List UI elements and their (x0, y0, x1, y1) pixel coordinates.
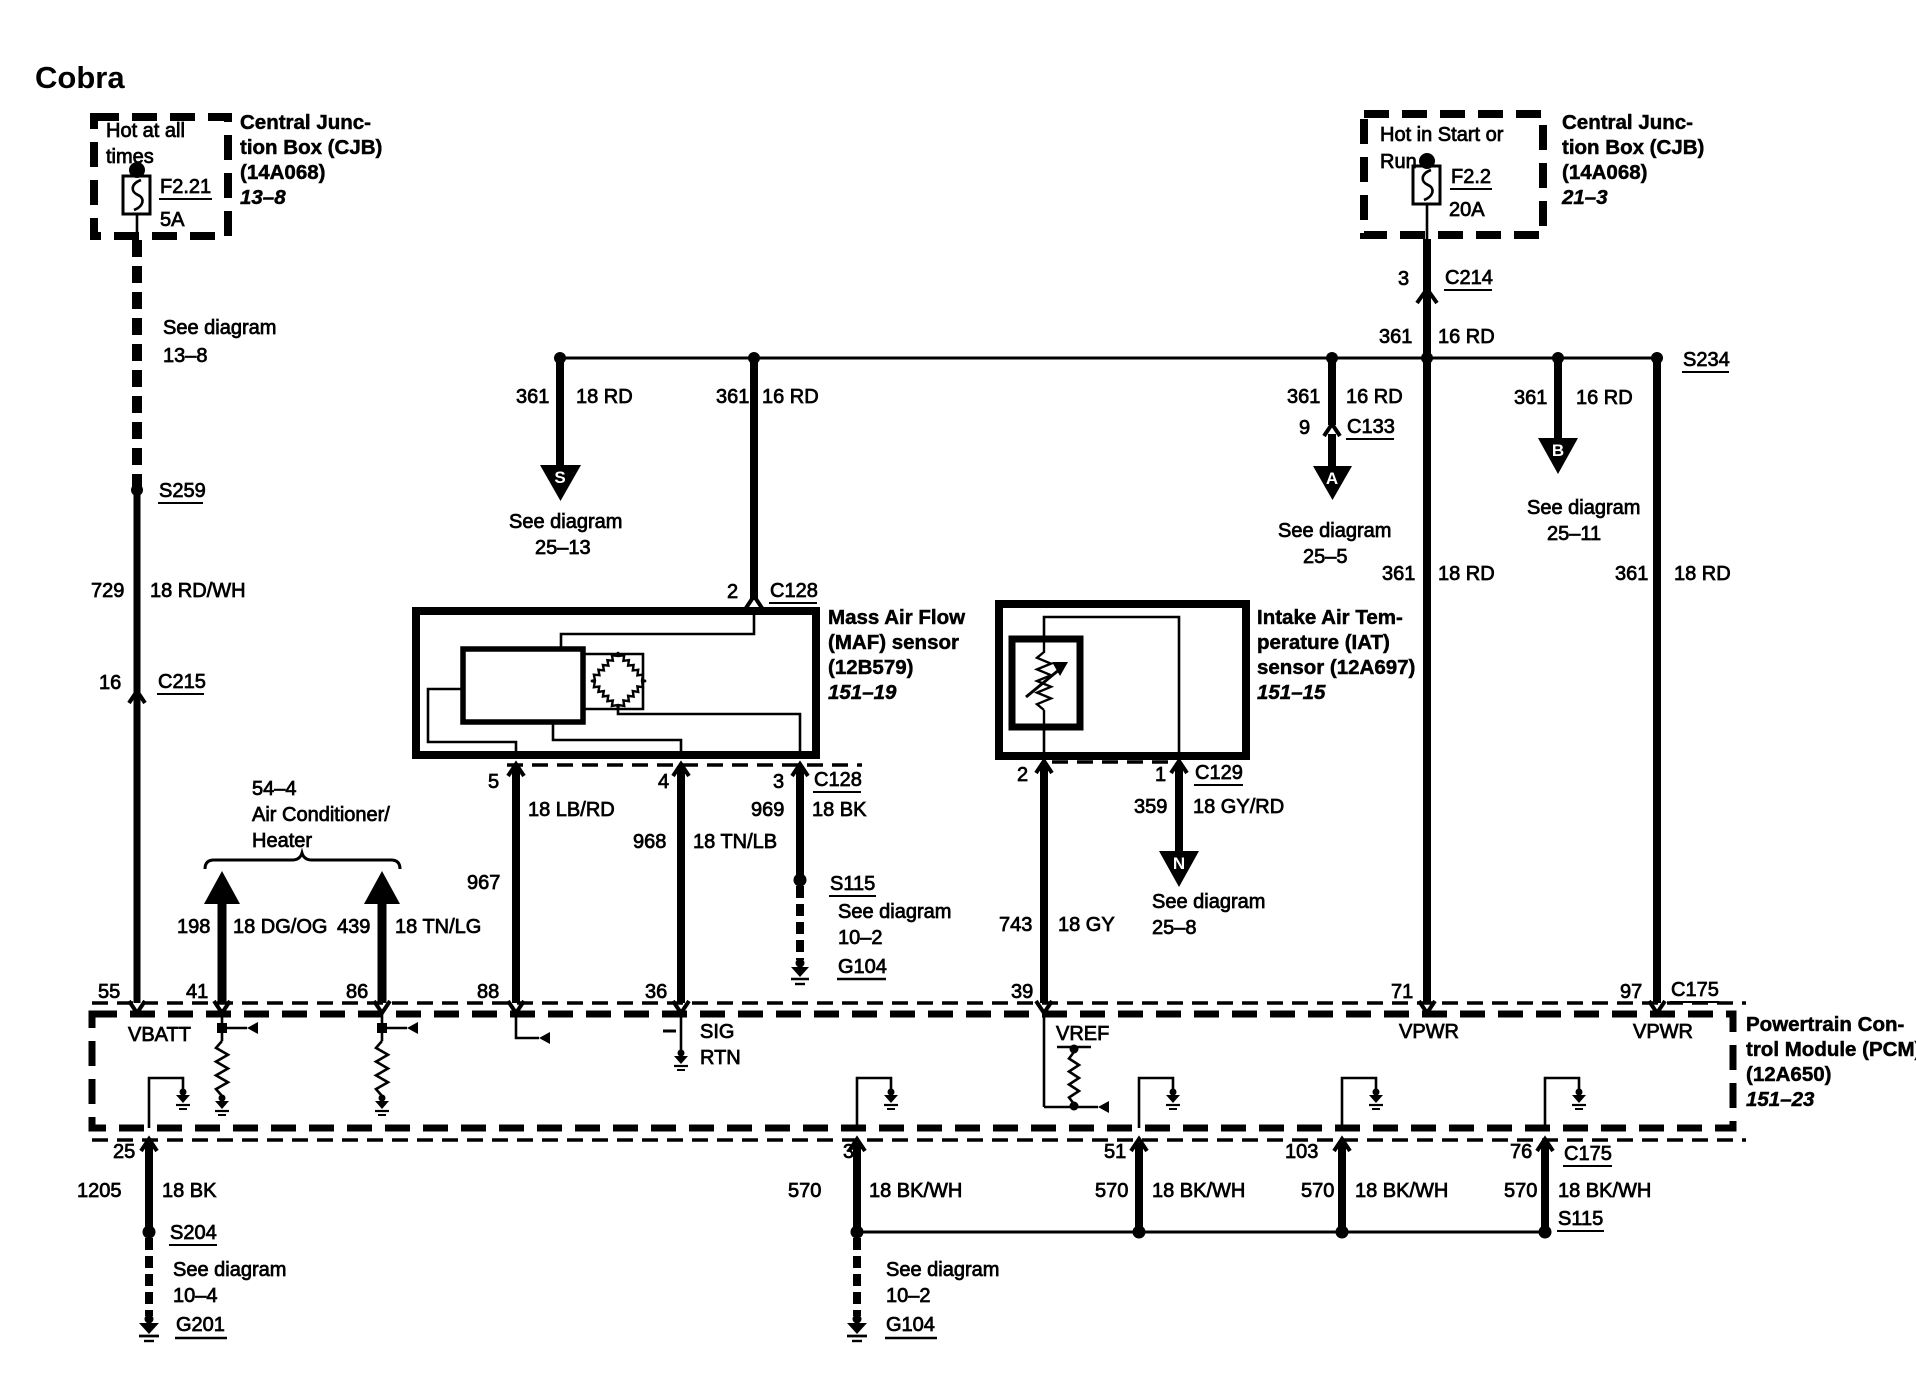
connector C128 pin labels 5 4 3 (488, 769, 862, 793)
svg-text:18 BK/WH: 18 BK/WH (1558, 1180, 1651, 1202)
svg-text:969: 969 (751, 799, 784, 821)
svg-text:See diagram: See diagram (1278, 520, 1391, 542)
label Mass Air Flow (MAF) sensor (12B579) 151-19 (828, 606, 965, 704)
wire from CJB2 to C214 (1423, 239, 1431, 358)
svg-text:C175: C175 (1564, 1143, 1612, 1165)
svg-text:97: 97 (1620, 981, 1642, 1003)
label 361 18 RD (pin71 feed) (1382, 563, 1495, 585)
svg-text:151–19: 151–19 (828, 681, 897, 704)
label See diagram 13-8 (163, 317, 276, 367)
svg-text:151–23: 151–23 (1746, 1088, 1815, 1111)
CJB box 2 (Hot in Start or Run, dashed) (1364, 114, 1543, 235)
svg-text:18 BK: 18 BK (812, 799, 867, 821)
ground G201 (139, 1315, 159, 1342)
label Hot at all times (106, 120, 185, 168)
wire 743 18 GY (1040, 763, 1048, 1003)
svg-text:S259: S259 (159, 480, 206, 502)
connector chevrons C128 pins (508, 764, 808, 776)
PCM internal ground circuit pin 103 (1342, 1078, 1383, 1128)
label 743 18 GY (999, 914, 1115, 936)
svg-text:729: 729 (91, 580, 124, 602)
svg-text:tion Box (CJB): tion Box (CJB) (240, 136, 382, 159)
svg-text:361: 361 (1287, 386, 1320, 408)
splice S115 top (794, 873, 877, 896)
connector C175 top label (1670, 979, 1719, 1002)
svg-text:21–3: 21–3 (1561, 186, 1608, 209)
label 1205 18 BK (77, 1180, 217, 1202)
arrow N (see diagram 25-8) (1159, 851, 1199, 887)
svg-text:18 RD: 18 RD (576, 386, 633, 408)
svg-text:570: 570 (788, 1180, 821, 1202)
svg-text:S204: S204 (170, 1222, 217, 1244)
MAF bridge diamond (591, 652, 646, 709)
svg-text:18 BK/WH: 18 BK/WH (869, 1180, 962, 1202)
thermistor element (1026, 639, 1068, 727)
svg-text:C215: C215 (158, 671, 206, 693)
label 969 18 BK (751, 799, 867, 821)
label 570 18 BK/WH (pin3) (788, 1180, 962, 1202)
svg-text:968: 968 (633, 831, 666, 853)
svg-text:VBATT: VBATT (128, 1024, 191, 1046)
label Central Junction Box (CJB) (14A068) 13-8 left (240, 111, 382, 209)
svg-text:1205: 1205 (77, 1180, 122, 1202)
svg-text:570: 570 (1504, 1180, 1537, 1202)
connector C129 dashed line (1052, 760, 1170, 763)
svg-text:10–4: 10–4 (173, 1285, 218, 1307)
label See diagram 25-13 (509, 511, 622, 559)
svg-text:16 RD: 16 RD (762, 386, 819, 408)
splice S204 (143, 1222, 218, 1245)
connector C128 pin 2 (727, 580, 818, 608)
wire drop to arrow B (1554, 358, 1562, 440)
svg-text:25–5: 25–5 (1303, 546, 1348, 568)
MAF sensor box (416, 611, 816, 755)
wire dashed pin3 to G104 (853, 1238, 861, 1316)
connector chevrons C129 pins (1036, 761, 1187, 773)
connector C175 dashed line bottom (92, 1138, 1746, 1141)
svg-text:B: B (1552, 441, 1564, 460)
wire MAF pin2 to module (561, 611, 754, 649)
svg-text:Intake Air Tem-: Intake Air Tem- (1257, 606, 1403, 629)
svg-text:perature (IAT): perature (IAT) (1257, 631, 1390, 654)
svg-text:3: 3 (1398, 268, 1409, 290)
fuse F2.21 5A (123, 162, 150, 240)
svg-text:18 GY: 18 GY (1058, 914, 1115, 936)
wire dashed S204 to G201 (145, 1238, 153, 1316)
svg-text:sensor (12A697): sensor (12A697) (1257, 656, 1415, 679)
svg-text:361: 361 (1615, 563, 1648, 585)
svg-text:G104: G104 (838, 956, 887, 978)
connector chevrons PCM top pins (129, 1001, 1665, 1013)
wire 968 18 TN/LB (677, 766, 685, 1003)
label 361 16 RD top right (1379, 326, 1495, 348)
svg-text:16: 16 (99, 672, 121, 694)
wire 359 18 GY/RD (1175, 763, 1183, 853)
IAT thermistor box (1012, 639, 1080, 727)
svg-text:25–11: 25–11 (1547, 523, 1601, 545)
wire 729 18 RD/WH (134, 490, 141, 1003)
wire 570 18 BK/WH pin 103 (1336, 1143, 1349, 1239)
svg-text:51: 51 (1104, 1141, 1126, 1163)
connector C128 dashed line bottom (507, 763, 862, 766)
svg-text:88: 88 (477, 981, 499, 1003)
label See diagram 25-5 (1278, 520, 1391, 568)
svg-text:Run: Run (1380, 151, 1417, 173)
wire drop to arrow A (1328, 358, 1336, 425)
svg-text:18 DG/OG: 18 DG/OG (233, 916, 327, 938)
svg-text:359: 359 (1134, 796, 1167, 818)
wire 1205 18 BK pin 25 (145, 1143, 153, 1228)
svg-text:Air Conditioner/: Air Conditioner/ (252, 804, 390, 826)
svg-text:10–2: 10–2 (838, 927, 883, 949)
svg-text:18 TN/LB: 18 TN/LB (693, 831, 777, 853)
wire drop to arrow S (556, 358, 564, 467)
wire dashed feed from CJB1 (132, 240, 142, 487)
PCM internal pin 88: stub arrow (516, 1013, 550, 1044)
wire 969 18 BK (796, 766, 804, 877)
wire MAF bridge to pin 3 (618, 709, 800, 755)
svg-text:86: 86 (346, 981, 368, 1003)
svg-text:18 RD: 18 RD (1674, 563, 1731, 585)
svg-text:16 RD: 16 RD (1438, 326, 1495, 348)
wire S234 feed to pin 97 (1653, 358, 1661, 1003)
label 54-4 Air Conditioner/Heater (252, 778, 390, 852)
ground G104 (upper) (791, 959, 809, 985)
brace Air Conditioner/Heater (205, 853, 400, 869)
PCM internal ground circuit pin 3 (857, 1078, 898, 1128)
svg-text:39: 39 (1011, 981, 1033, 1003)
connector C129 pin labels (1017, 762, 1243, 786)
svg-text:4: 4 (658, 771, 669, 793)
label See diagram 10-2 G104 (lower) (885, 1259, 999, 1338)
PCM internal pin 41: junction, stub arrow, resistor, ground (215, 1013, 258, 1115)
wire 570 18 BK/WH pin 3 (853, 1143, 861, 1228)
MAF inner module rect (463, 649, 583, 722)
svg-text:See diagram: See diagram (163, 317, 276, 339)
PCM internal pin 39: VREF resistor and stub arrow (1044, 1013, 1109, 1113)
svg-text:C133: C133 (1347, 416, 1395, 438)
pin labels PCM bottom row (113, 1141, 1532, 1163)
svg-text:18 BK/WH: 18 BK/WH (1355, 1180, 1448, 1202)
svg-text:VPWR: VPWR (1399, 1021, 1459, 1043)
svg-text:S: S (554, 468, 565, 487)
label See diagram 25-8 (1152, 891, 1265, 939)
svg-text:C214: C214 (1445, 267, 1493, 289)
wire IAT thermistor to pin 2 (1043, 727, 1046, 752)
svg-text:Powertrain Con-: Powertrain Con- (1746, 1013, 1904, 1036)
svg-text:S115: S115 (830, 873, 875, 895)
svg-text:71: 71 (1391, 981, 1413, 1003)
svg-text:18 LB/RD: 18 LB/RD (528, 799, 615, 821)
wire VPWR feed to pin 71 (1423, 358, 1431, 1003)
svg-text:13–8: 13–8 (240, 186, 286, 209)
svg-text:trol Module (PCM): trol Module (PCM) (1746, 1038, 1916, 1061)
svg-text:570: 570 (1095, 1180, 1128, 1202)
svg-text:2: 2 (1017, 764, 1028, 786)
svg-text:2: 2 (727, 581, 738, 603)
wire C133 to arrow A (1328, 434, 1336, 468)
wire dashed S115 to G104 (796, 886, 804, 960)
label 361 16 RD (MAF drop) (716, 386, 819, 408)
svg-text:(14A068): (14A068) (1562, 161, 1647, 184)
svg-text:tion Box (CJB): tion Box (CJB) (1562, 136, 1704, 159)
pin labels PCM top row (98, 981, 1642, 1003)
PCM box dashed (Powertrain Control Module) (92, 1014, 1733, 1128)
svg-text:13–8: 13–8 (163, 345, 208, 367)
label 361 18 RD (S drop) (516, 386, 633, 408)
svg-text:F2.21: F2.21 (160, 176, 211, 198)
svg-text:(12A650): (12A650) (1746, 1063, 1831, 1086)
wire 570 18 BK/WH pin 76 (1539, 1143, 1552, 1239)
label Hot in Start or Run (1380, 124, 1504, 173)
svg-text:C129: C129 (1195, 762, 1243, 784)
wire 570 18 BK/WH pin 51 (1133, 1143, 1146, 1239)
svg-text:SIG: SIG (700, 1021, 734, 1043)
svg-text:Central Junc-: Central Junc- (1562, 111, 1693, 134)
fuse F2.2 value label (1449, 166, 1492, 221)
svg-text:Cobra: Cobra (35, 60, 125, 95)
svg-text:18 BK/WH: 18 BK/WH (1152, 1180, 1245, 1202)
svg-text:C128: C128 (814, 769, 862, 791)
connector C175 dashed line top (92, 1001, 1746, 1004)
arrow up wire 198 (204, 871, 240, 1003)
label Powertrain Control Module (PCM) (12A650) 151-23 (1746, 1013, 1916, 1111)
svg-text:570: 570 (1301, 1180, 1334, 1202)
fuse F2.2 20A (1413, 153, 1440, 239)
svg-text:18 RD: 18 RD (1438, 563, 1495, 585)
svg-text:361: 361 (516, 386, 549, 408)
label SIG RTN with minus (663, 1021, 741, 1069)
PCM internal ground circuit pin 76 (1545, 1078, 1586, 1128)
PCM internal ground circuit pin 25 (149, 1078, 190, 1128)
svg-text:55: 55 (98, 981, 120, 1003)
svg-text:16 RD: 16 RD (1346, 386, 1403, 408)
label See diagram 25-11 (1527, 497, 1640, 545)
svg-text:5A: 5A (160, 209, 185, 231)
svg-text:VPWR: VPWR (1633, 1021, 1693, 1043)
svg-text:See diagram: See diagram (509, 511, 622, 533)
connector C175 bottom label (1563, 1143, 1612, 1166)
label 359 18 GY/RD (1134, 796, 1284, 818)
connector chevrons PCM bottom pins (141, 1139, 1553, 1151)
svg-text:18 BK: 18 BK (162, 1180, 217, 1202)
arrow S (see diagram 25-13) (540, 465, 581, 501)
connector C214 pin 3 (1398, 267, 1493, 303)
svg-text:Hot in Start or: Hot in Start or (1380, 124, 1504, 146)
svg-text:439: 439 (337, 916, 370, 938)
svg-text:See diagram: See diagram (886, 1259, 999, 1281)
fuse F2.21 value label (159, 176, 212, 231)
wire drop to MAF pin 2 (750, 358, 758, 600)
label 968 18 TN/LB (633, 831, 777, 853)
svg-text:25–13: 25–13 (535, 537, 591, 559)
svg-text:(14A068): (14A068) (240, 161, 325, 184)
svg-text:18 GY/RD: 18 GY/RD (1193, 796, 1284, 818)
svg-text:Mass Air Flow: Mass Air Flow (828, 606, 965, 629)
wire IAT internal loop to pin 1 (1044, 617, 1179, 752)
label 729 18 RD/WH (91, 580, 246, 602)
label Central Junction Box (CJB) (14A068) 21-3 right (1561, 111, 1704, 209)
svg-text:151–15: 151–15 (1257, 681, 1326, 704)
arrow A (see diagram 25-5) (1313, 466, 1352, 500)
label 198 18 DG/OG (177, 916, 327, 938)
arrow up wire 439 (364, 871, 400, 1003)
svg-text:See diagram: See diagram (1527, 497, 1640, 519)
ground G104 (lower) (847, 1315, 867, 1342)
label 361 16 RD (B drop) (1514, 387, 1633, 409)
svg-text:361: 361 (1514, 387, 1547, 409)
svg-text:RTN: RTN (700, 1047, 741, 1069)
IAT sensor box (999, 604, 1246, 756)
svg-text:See diagram: See diagram (838, 901, 951, 923)
svg-text:9: 9 (1299, 417, 1310, 439)
PCM internal pin 36: wire and ground (674, 1013, 688, 1070)
svg-text:10–2: 10–2 (886, 1285, 931, 1307)
svg-text:S115: S115 (1558, 1208, 1603, 1230)
svg-text:25–8: 25–8 (1152, 917, 1197, 939)
junction dots on bus (554, 352, 1663, 364)
svg-text:76: 76 (1510, 1141, 1532, 1163)
label 439 18 TN/LG (337, 916, 481, 938)
svg-text:16 RD: 16 RD (1576, 387, 1633, 409)
CJB box 1 (Hot at all times, dashed) (94, 117, 228, 236)
svg-text:20A: 20A (1449, 199, 1485, 221)
svg-text:C175: C175 (1671, 979, 1719, 1001)
svg-text:VREF: VREF (1056, 1023, 1109, 1045)
svg-text:times: times (106, 146, 154, 168)
svg-text:(12B579): (12B579) (828, 656, 913, 679)
PCM internal pin 86: junction, stub arrow, resistor, ground (375, 1013, 418, 1115)
svg-text:743: 743 (999, 914, 1032, 936)
wire bottom bus 570 (857, 1231, 1545, 1234)
wire bus 361 horizontal (560, 357, 1657, 360)
wire MAF module to pin 5 (428, 689, 516, 755)
svg-text:Central Junc-: Central Junc- (240, 111, 371, 134)
arrow B (see diagram 25-11) (1538, 438, 1578, 474)
svg-text:3: 3 (773, 771, 784, 793)
label 361 16 RD (A drop) (1287, 386, 1403, 408)
label Intake Air Temperature (IAT) sensor (12A697) 151-15 (1257, 606, 1415, 704)
svg-text:36: 36 (645, 981, 667, 1003)
svg-text:361: 361 (1382, 563, 1415, 585)
wire 967 18 LB/RD (512, 766, 520, 1003)
svg-text:S234: S234 (1683, 349, 1730, 371)
splice dot pin3 bottom (851, 1226, 864, 1239)
svg-text:18 TN/LG: 18 TN/LG (395, 916, 481, 938)
wire MAF module to pin 4 (553, 722, 681, 755)
svg-text:G201: G201 (176, 1314, 225, 1336)
svg-text:18 RD/WH: 18 RD/WH (150, 580, 246, 602)
label 361 18 RD (pin97 feed) (1615, 563, 1731, 585)
svg-text:G104: G104 (886, 1314, 935, 1336)
svg-text:N: N (1173, 854, 1185, 873)
svg-text:A: A (1326, 469, 1338, 488)
label 570 18 BK/WH (pin51) (1095, 1180, 1245, 1202)
PCM internal ground circuit pin 51 (1139, 1078, 1180, 1128)
svg-text:F2.2: F2.2 (1451, 166, 1491, 188)
label See diagram 10-4 G201 (173, 1259, 286, 1338)
svg-text:5: 5 (488, 771, 499, 793)
svg-text:(MAF) sensor: (MAF) sensor (828, 631, 959, 654)
splice S259 (131, 480, 206, 503)
svg-text:Heater: Heater (252, 830, 312, 852)
connector C133 pin 9 (1299, 416, 1395, 439)
label 570 18 BK/WH S115 (pin76) (1504, 1180, 1651, 1231)
label 18 LB/RD and 967 (467, 799, 615, 894)
svg-text:41: 41 (186, 981, 208, 1003)
svg-text:361: 361 (716, 386, 749, 408)
label See diagram 10-2 G104 (upper) (837, 901, 951, 979)
svg-text:198: 198 (177, 916, 210, 938)
label 570 18 BK/WH (pin103) (1301, 1180, 1448, 1202)
svg-text:25: 25 (113, 1141, 135, 1163)
svg-text:Hot at all: Hot at all (106, 120, 185, 142)
svg-text:361: 361 (1379, 326, 1412, 348)
wire MAF bridge loop (583, 654, 643, 709)
connector C215 (99, 671, 206, 703)
svg-text:C128: C128 (770, 580, 818, 602)
splice S234 label (1682, 349, 1730, 372)
svg-text:103: 103 (1285, 1141, 1318, 1163)
svg-text:967: 967 (467, 872, 500, 894)
svg-text:See diagram: See diagram (1152, 891, 1265, 913)
svg-text:1: 1 (1155, 764, 1166, 786)
svg-text:54–4: 54–4 (252, 778, 297, 800)
svg-text:See diagram: See diagram (173, 1259, 286, 1281)
